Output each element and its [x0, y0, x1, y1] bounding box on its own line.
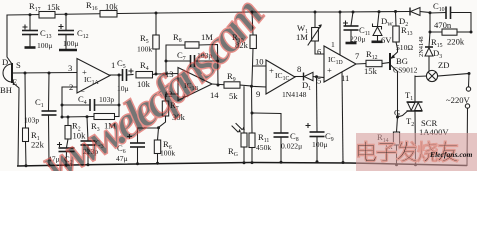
svg-text:0.022μ: 0.022μ [281, 142, 302, 151]
pink watermark band bottom right [355, 133, 477, 171]
resistor R7 30k [159, 100, 186, 128]
svg-text:~220V: ~220V [446, 95, 471, 105]
wire: IC1B pin12 [166, 94, 179, 101]
op-amp IC1B [164, 68, 219, 102]
resistor R10 82k [232, 12, 266, 86]
svg-text:D: D [2, 57, 8, 67]
node R10 on rail [251, 11, 254, 14]
resistor R17 15k [29, 1, 61, 18]
op-amp IC1D [317, 46, 360, 86]
resistor R9 5k [224, 71, 252, 101]
potentiometer W1 1M [296, 12, 324, 54]
thyristor SCR 1A400V [394, 76, 449, 166]
lamp ZD [415, 60, 469, 82]
zener diode DW 6V [372, 12, 394, 45]
svg-text:Elecfans.com: Elecfans.com [429, 150, 472, 159]
svg-text:10: 10 [255, 57, 264, 67]
svg-text:1: 1 [331, 40, 335, 49]
node C10 branch [429, 11, 432, 14]
node R7/R6/C6 [157, 126, 160, 129]
node feedback left [165, 73, 168, 76]
resistor R14 1k [377, 117, 400, 166]
svg-text:103p: 103p [24, 116, 39, 125]
svg-text:10k: 10k [105, 2, 119, 12]
svg-text:+: + [269, 66, 274, 76]
op-amp IC1A [68, 59, 115, 97]
wire: IC1D pin11 to ground rail [342, 72, 345, 164]
capacitor C12 100u [58, 15, 89, 51]
resistor R15 220k [429, 13, 473, 49]
wire: top rail right of D2 to C10 branch [420, 12, 430, 13]
svg-text:+: + [327, 65, 332, 75]
node W1 on rail [314, 11, 317, 14]
svg-text:6V: 6V [381, 35, 392, 45]
capacitor C8 0.022u [252, 113, 302, 164]
wire: IC1A output [110, 74, 122, 76]
node R16/R5 on rail [155, 12, 158, 15]
resistor R1 22k [23, 73, 45, 167]
capacitor C11 220u [344, 12, 371, 44]
svg-text:100μ: 100μ [312, 140, 327, 149]
node C3 tap [86, 115, 89, 118]
resistor R8 1M feedback [166, 32, 218, 85]
resistor R3 1M feedback [62, 114, 119, 134]
diode D3 2N4148 [418, 32, 442, 78]
svg-text:CS9012: CS9012 [393, 66, 418, 75]
node R4/R5/pin13 [155, 73, 158, 76]
capacitor C3 223p [81, 117, 104, 166]
resistor R5 100k [137, 13, 159, 74]
svg-text:100k: 100k [137, 45, 152, 54]
svg-text:220μ: 220μ [350, 35, 365, 44]
node D1/C9/pin5 [315, 75, 318, 78]
resistor R2 10k [65, 117, 86, 141]
svg-text:2N4148: 2N4148 [418, 36, 425, 57]
capacitor C7 103p feedback [165, 50, 220, 67]
node at C1 tap [48, 72, 51, 75]
node C8 tap [251, 112, 254, 115]
wire: rail to IC1D pin4 [331, 12, 340, 55]
microphone BH [0, 15, 21, 166]
capacitor C9 100u [306, 77, 334, 164]
svg-text:3: 3 [68, 63, 72, 73]
wire: bottom ground rail [17, 163, 467, 167]
transistor BG CS9012 [390, 49, 418, 118]
wire: C6 to R7/R6 node [138, 127, 159, 129]
capacitor C13 100u [22, 15, 52, 50]
node DW on rail [378, 10, 381, 13]
svg-text:1M: 1M [296, 32, 308, 42]
node pin2/C4 [61, 104, 64, 107]
svg-text:S: S [16, 60, 21, 70]
svg-text:6: 6 [317, 47, 322, 57]
red diagonal watermark www.elecfans.com [35, 0, 274, 191]
capacitor C6 47u [116, 128, 145, 165]
svg-text:15k: 15k [364, 66, 378, 76]
svg-text:BH: BH [0, 85, 12, 95]
node at R1 tap [24, 72, 27, 75]
svg-text:220k: 220k [447, 37, 465, 47]
capacitor C4 103p feedback [62, 94, 119, 111]
node IC1B output [217, 84, 220, 87]
svg-text:BG: BG [396, 56, 408, 66]
capacitor C5 10u coupling [117, 58, 133, 93]
svg-text:E: E [12, 77, 17, 87]
node IC1A output [118, 74, 121, 77]
node R13 on rail [394, 10, 397, 13]
svg-text:5k: 5k [229, 91, 238, 101]
capacitor C10 470n [430, 1, 471, 32]
diode D2 on rail [399, 8, 420, 29]
svg-text:100k: 100k [160, 149, 175, 158]
svg-text:7: 7 [355, 51, 360, 61]
diode D1 1N4148 [282, 72, 324, 99]
node gate junction [396, 116, 399, 119]
svg-text:15k: 15k [47, 2, 61, 12]
svg-text:1N4148: 1N4148 [282, 90, 307, 99]
wire: mic S output [13, 72, 77, 75]
svg-text:450k: 450k [256, 143, 271, 152]
svg-text:510Ω: 510Ω [396, 43, 413, 52]
op-amp IC1C [255, 57, 301, 100]
node IC1D pin4 line on rail [339, 11, 342, 14]
svg-text:8: 8 [297, 64, 301, 74]
photoresistor RG [228, 87, 247, 165]
svg-text:14: 14 [210, 90, 219, 100]
svg-text:1: 1 [111, 60, 115, 70]
resistor R6 100k [154, 128, 175, 165]
svg-text:5: 5 [317, 76, 321, 86]
node pin9 [250, 85, 253, 88]
wire: IC1B output [212, 83, 224, 86]
resistor R13 510ohm [393, 12, 414, 53]
svg-text:100μ: 100μ [37, 41, 52, 50]
node C13 on rail [29, 13, 32, 16]
node pin2/R3 [61, 116, 64, 119]
capacitor C1 103p [24, 73, 57, 167]
wire: IC1A pin2 to feedback node [62, 87, 77, 117]
resistor R12 15k [356, 49, 390, 76]
resistor R4 10k [136, 60, 156, 89]
svg-text:ZD: ZD [438, 60, 449, 70]
wire: gate to SCR [398, 112, 408, 118]
AC source ~220V [446, 72, 471, 166]
node C12 on rail [65, 13, 68, 16]
svg-text:9: 9 [256, 89, 260, 99]
resistor R11 450k [249, 86, 271, 164]
resistor R16 10k [86, 0, 119, 17]
wire: feedback vertical to IC1A output [118, 75, 121, 117]
node R2 tap [67, 116, 70, 119]
wire: to IC1C pin9 [252, 85, 267, 88]
svg-text:100μ: 100μ [63, 39, 78, 48]
wire: top supply rail [7, 12, 409, 16]
node C11 on rail [352, 11, 355, 14]
capacitor C2 47u electrolytic [48, 139, 75, 167]
wire: to IC1B pin13 [156, 73, 178, 76]
